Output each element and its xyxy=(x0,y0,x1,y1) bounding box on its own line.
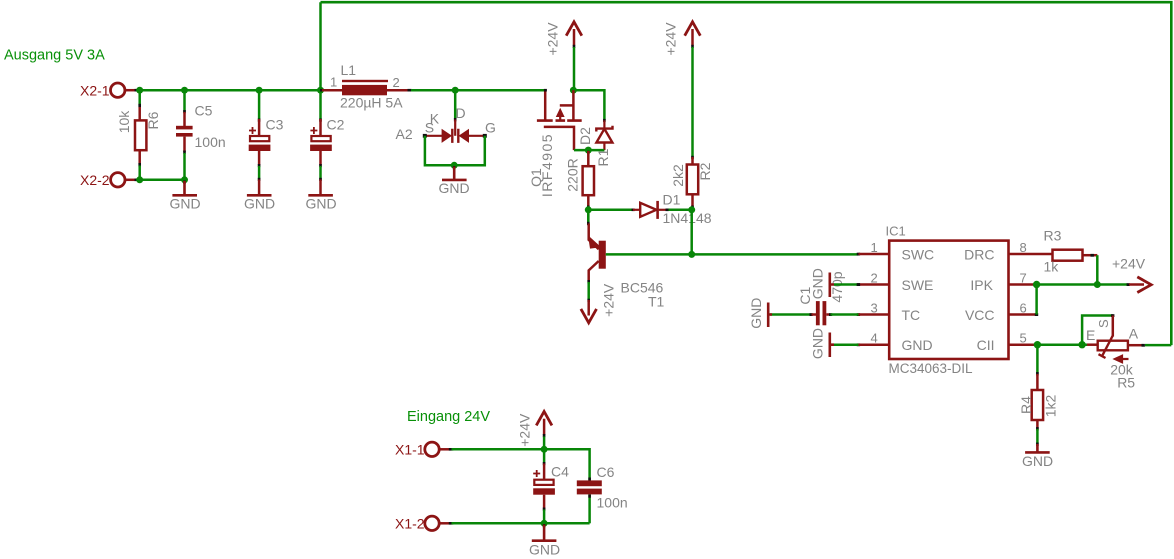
transistor Q1 xyxy=(528,89,582,197)
wire L1 to Q1 gate xyxy=(411,89,545,92)
pin 1 SWC xyxy=(857,240,934,262)
svg-text:100n: 100n xyxy=(195,134,226,150)
capacitor C1 xyxy=(770,271,859,325)
connector X1-2 xyxy=(395,516,453,532)
svg-text:1N4148: 1N4148 xyxy=(663,210,712,226)
supply +24V below T1 xyxy=(581,283,617,323)
svg-text:Ausgang 5V 3A: Ausgang 5V 3A xyxy=(4,48,105,64)
node junction base wire xyxy=(688,251,695,258)
svg-text:+24V: +24V xyxy=(545,22,561,56)
resistor R6 xyxy=(116,90,161,180)
node junction pin5/R5 xyxy=(1078,341,1085,348)
svg-text:T1: T1 xyxy=(648,294,665,310)
svg-text:C5: C5 xyxy=(195,103,213,119)
ground at pin 4 xyxy=(809,328,858,359)
svg-text:C3: C3 xyxy=(266,117,284,133)
svg-text:10k: 10k xyxy=(116,110,132,134)
node junction C3 top xyxy=(256,87,263,94)
svg-text:SWC: SWC xyxy=(902,246,935,262)
svg-text:G: G xyxy=(485,119,496,135)
svg-text:7: 7 xyxy=(1020,271,1027,286)
svg-text:GND: GND xyxy=(244,196,275,212)
svg-text:R5: R5 xyxy=(1117,375,1135,391)
wire +24V to R2 xyxy=(691,47,694,158)
wire D1 cathode to R2 node xyxy=(669,210,693,255)
pin 7 IPK xyxy=(970,271,1035,293)
svg-text:1: 1 xyxy=(330,75,337,90)
svg-text:470p: 470p xyxy=(829,271,845,302)
node junction C4 top xyxy=(541,446,548,453)
connector X2-2 xyxy=(80,172,139,188)
svg-text:TC: TC xyxy=(902,307,921,323)
trimmer R5 xyxy=(1086,314,1145,390)
svg-text:MC34063-DIL: MC34063-DIL xyxy=(889,361,974,376)
svg-text:220µH 5A: 220µH 5A xyxy=(340,95,403,111)
node junction R6 top xyxy=(136,87,143,94)
node junction A2 top xyxy=(452,87,459,94)
node junction Q1 source xyxy=(570,87,577,94)
svg-text:D: D xyxy=(456,105,466,121)
wire output net vertical to top rail xyxy=(319,2,322,90)
node junction D1/R2 xyxy=(688,206,695,213)
connector X2-1 xyxy=(80,83,139,99)
svg-text:GND: GND xyxy=(809,268,825,299)
svg-text:+24V: +24V xyxy=(601,283,617,317)
wire output bottom y=179.8 xyxy=(138,179,185,182)
svg-text:D2: D2 xyxy=(577,127,593,145)
svg-text:5: 5 xyxy=(1020,331,1027,346)
node junction R1/D1 xyxy=(585,206,592,213)
svg-text:A2: A2 xyxy=(396,126,413,142)
ground at pin 2 xyxy=(809,268,860,299)
capacitor C5 xyxy=(176,90,226,180)
node junction pin5/R4 xyxy=(1034,341,1041,348)
svg-text:GND: GND xyxy=(748,298,764,329)
ic U1 MC34063 box xyxy=(886,224,1009,376)
supply +24V input xyxy=(517,412,552,450)
wire R3 to IPK net xyxy=(1096,255,1099,284)
ground below C5 xyxy=(170,181,201,212)
svg-text:C2: C2 xyxy=(327,117,345,133)
wire pin5 net xyxy=(1036,343,1087,346)
svg-text:A: A xyxy=(1129,326,1139,342)
resistor R1 xyxy=(564,148,611,209)
svg-text:R3: R3 xyxy=(1044,228,1062,244)
pin 2 SWE xyxy=(857,271,934,293)
svg-text:1k2: 1k2 xyxy=(1043,395,1059,418)
ground left of C1 xyxy=(748,298,772,329)
svg-text:E: E xyxy=(1086,327,1095,343)
svg-text:X1-1: X1-1 xyxy=(395,442,425,458)
svg-text:IPK: IPK xyxy=(970,277,993,293)
node junction R6 bottom xyxy=(136,176,143,183)
pin 5 CII xyxy=(977,331,1036,353)
inductor L1 xyxy=(320,62,412,111)
wire output top y=90 xyxy=(138,89,343,92)
resistor R4 xyxy=(1018,345,1059,444)
svg-text:GND: GND xyxy=(809,328,825,359)
svg-text:R6: R6 xyxy=(145,111,161,129)
pin 8 DRC xyxy=(964,240,1052,262)
svg-text:C4: C4 xyxy=(551,464,569,480)
svg-text:GND: GND xyxy=(1022,453,1053,469)
wire IPK net xyxy=(1037,285,1128,315)
wire input top y=449.3 xyxy=(452,449,590,480)
svg-text:+24V: +24V xyxy=(517,413,533,447)
wire R5 A to +24V rail xyxy=(1145,344,1171,347)
svg-text:220R: 220R xyxy=(564,158,580,191)
svg-text:1: 1 xyxy=(871,240,878,255)
wire R1 to D1 node xyxy=(587,208,590,225)
supply +24V above Q1 xyxy=(545,22,582,56)
svg-text:C6: C6 xyxy=(597,464,615,480)
svg-text:8: 8 xyxy=(1020,240,1027,255)
connector X1-1 xyxy=(395,442,453,458)
svg-text:X2-2: X2-2 xyxy=(80,172,110,188)
ground input xyxy=(529,524,560,558)
svg-text:DRC: DRC xyxy=(964,246,994,262)
svg-text:VCC: VCC xyxy=(965,307,995,323)
node junction A2 bottom xyxy=(451,162,458,169)
svg-text:R4: R4 xyxy=(1018,396,1034,414)
svg-text:3: 3 xyxy=(871,301,878,316)
wire input bottom y=523.3 xyxy=(452,522,590,525)
svg-text:R2: R2 xyxy=(697,162,713,180)
svg-text:2: 2 xyxy=(871,271,878,286)
svg-text:S: S xyxy=(1096,319,1111,328)
node junction L1/C2 xyxy=(317,87,324,94)
resistor R2 xyxy=(670,156,713,209)
svg-text:+24V: +24V xyxy=(663,22,679,56)
svg-text:4: 4 xyxy=(871,331,878,346)
svg-text:Eingang 24V: Eingang 24V xyxy=(407,409,490,425)
svg-text:K: K xyxy=(430,111,440,127)
wire base to IC pin 1 xyxy=(606,253,859,256)
svg-text:100n: 100n xyxy=(597,495,628,511)
svg-text:R1: R1 xyxy=(595,148,611,166)
svg-text:GND: GND xyxy=(439,180,470,196)
diode D1 xyxy=(632,192,712,226)
svg-text:2: 2 xyxy=(393,75,400,90)
capacitor C4 xyxy=(533,449,569,523)
svg-text:6: 6 xyxy=(1020,301,1027,316)
node junction IPK/pin7 xyxy=(1033,281,1040,288)
svg-text:D1: D1 xyxy=(663,192,681,208)
wire +24V to Q1 source xyxy=(573,47,604,120)
node junction R3/IPK xyxy=(1094,281,1101,288)
pin 4 GND xyxy=(857,331,933,353)
svg-text:GND: GND xyxy=(306,196,337,212)
node junction C5/GND bottom xyxy=(181,176,188,183)
ground below C2 xyxy=(306,195,337,211)
svg-text:SWE: SWE xyxy=(902,277,934,293)
svg-text:CII: CII xyxy=(977,337,995,353)
svg-text:GND: GND xyxy=(902,337,933,353)
resistor R3 xyxy=(1044,228,1098,275)
svg-text:GND: GND xyxy=(529,542,560,558)
capacitor C3 xyxy=(249,90,284,194)
node junction gate/R1 xyxy=(585,147,592,154)
node junction C5 top xyxy=(181,87,188,94)
svg-text:X1-2: X1-2 xyxy=(395,516,425,532)
node junction C4 bottom xyxy=(541,520,548,527)
transistor T1 xyxy=(587,210,665,310)
pin 3 TC xyxy=(857,301,920,323)
svg-text:+24V: +24V xyxy=(1112,256,1146,272)
wire D1 anode xyxy=(588,209,633,212)
supply +24V above R2 xyxy=(663,22,701,56)
diode pair A2 xyxy=(396,90,496,165)
wire +24V top rail loop xyxy=(321,2,1172,345)
svg-text:2k2: 2k2 xyxy=(670,164,686,187)
wire Q1 gate node xyxy=(574,149,604,152)
capacitor C2 xyxy=(310,90,345,194)
svg-text:IC1: IC1 xyxy=(886,224,906,239)
ground below A2 xyxy=(439,166,470,196)
ground below C3 xyxy=(244,195,275,211)
diode D2 zener xyxy=(577,119,613,150)
ground below R4 xyxy=(1022,443,1053,470)
svg-text:IRF4905: IRF4905 xyxy=(539,133,555,197)
capacitor C6 xyxy=(577,464,628,523)
pin 6 VCC xyxy=(965,301,1038,323)
svg-text:X2-1: X2-1 xyxy=(80,83,110,99)
supply +24V arrow right xyxy=(1112,256,1151,293)
svg-text:L1: L1 xyxy=(341,62,357,78)
svg-text:GND: GND xyxy=(170,196,201,212)
wire R5 wiper branch xyxy=(1082,316,1113,345)
svg-text:1k: 1k xyxy=(1044,259,1060,275)
